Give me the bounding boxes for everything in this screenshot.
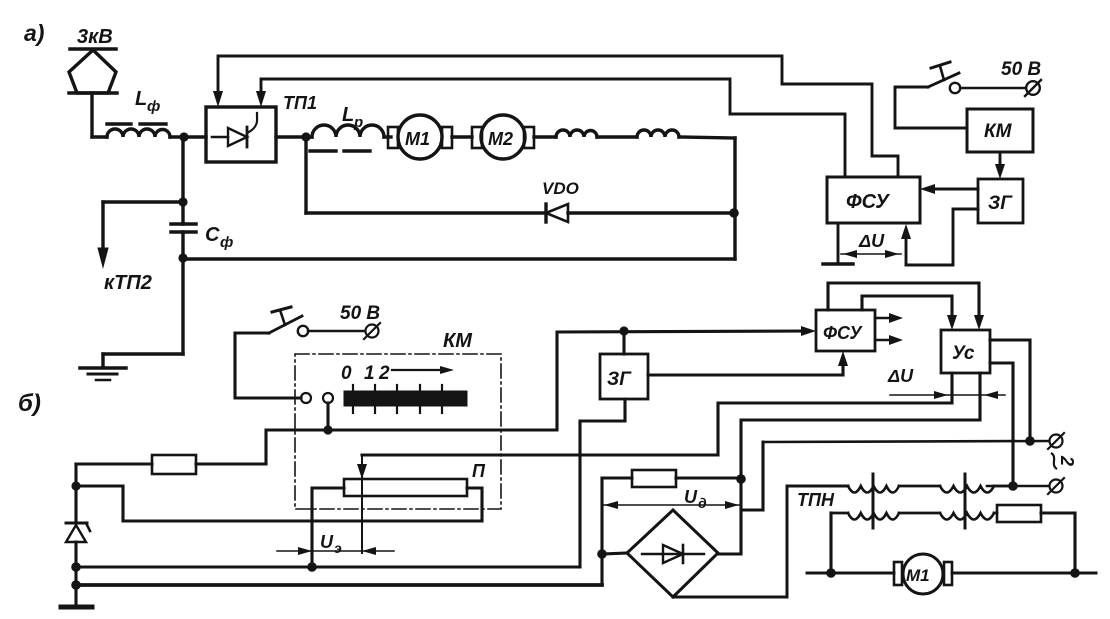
svg-text:ΔU: ΔU — [887, 366, 914, 386]
svg-text:2: 2 — [378, 363, 390, 384]
svg-text:U: U — [320, 532, 334, 552]
svg-text:М1: М1 — [405, 129, 430, 149]
svg-text:р: р — [353, 114, 363, 131]
svg-text:ЗГ: ЗГ — [988, 193, 1013, 214]
svg-text:ф: ф — [147, 98, 160, 115]
svg-text:П: П — [472, 461, 486, 481]
svg-text:2: 2 — [1057, 455, 1077, 466]
svg-text:50 В: 50 В — [340, 303, 380, 324]
svg-text:б): б) — [18, 390, 41, 417]
svg-text:а): а) — [24, 20, 44, 46]
svg-text:VDO: VDO — [542, 179, 579, 198]
svg-text:КМ: КМ — [984, 121, 1013, 142]
svg-text:ф: ф — [220, 234, 233, 251]
svg-text:М2: М2 — [488, 129, 513, 149]
svg-text:ФСУ: ФСУ — [846, 191, 890, 213]
svg-text:1: 1 — [364, 363, 375, 384]
svg-text:д: д — [698, 495, 707, 511]
svg-text:ТП1: ТП1 — [283, 93, 317, 113]
svg-text:М1: М1 — [906, 566, 930, 585]
svg-text:L: L — [135, 88, 147, 110]
svg-text:КМ: КМ — [443, 330, 473, 352]
svg-text:Ус: Ус — [952, 343, 975, 364]
svg-text:0: 0 — [341, 363, 352, 384]
svg-text:3кВ: 3кВ — [77, 26, 113, 48]
svg-text:кТП2: кТП2 — [104, 272, 152, 294]
svg-text:50 В: 50 В — [1001, 59, 1041, 80]
svg-text:э: э — [334, 540, 342, 556]
svg-text:L: L — [342, 104, 354, 126]
svg-text:ЗГ: ЗГ — [607, 369, 632, 390]
svg-text:С: С — [205, 224, 220, 246]
svg-text:ТПН: ТПН — [797, 490, 835, 510]
svg-text:ΔU: ΔU — [858, 231, 885, 251]
svg-text:ФСУ: ФСУ — [823, 323, 863, 343]
svg-text:U: U — [684, 487, 698, 507]
